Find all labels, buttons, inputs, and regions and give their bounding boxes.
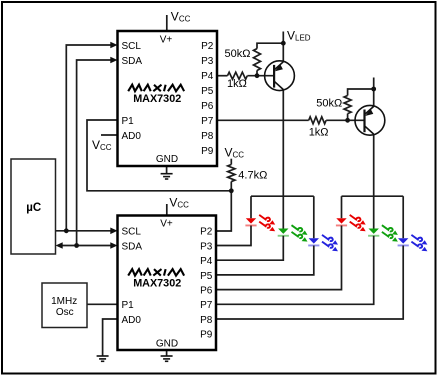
U1 pin labels [122,35,214,166]
wire Q1 collector to LED group 1 [282,90,284,229]
wire U1 P1 to pull-up node [87,120,231,191]
wire SDA to U2 and uC [62,245,112,247]
U2 pin labels [122,219,213,350]
wire SCL to U2 and uC [56,230,113,232]
wire green LED2 cathode to U2 P7 [217,236,374,304]
arrowhead SDA into uC [56,242,63,249]
junction node SDA [74,243,79,248]
svg-text:SCL: SCL [122,41,142,52]
svg-text:1kΩ: 1kΩ [227,78,247,90]
oscillator box [42,283,87,328]
wire U1 GND stub [166,166,168,174]
svg-text:SCL: SCL [122,227,142,238]
wire U1 P7 to R4 [217,119,309,121]
svg-text:P6: P6 [200,286,213,297]
svg-text:P3: P3 [200,242,213,253]
svg-text:AD0: AD0 [122,315,142,326]
arrowhead SCL into U2 [110,228,117,235]
svg-text:MAX7302: MAX7302 [133,278,181,290]
wire red LED2 cathode to U2 P6 [217,226,342,290]
ground U2 [161,356,173,361]
wire R4 to Q2 base node [326,119,364,121]
wire Q2 collector to LED group 2 [373,134,375,229]
svg-text:P2: P2 [201,41,214,52]
wire blue LED1 anode drop [313,196,315,238]
ground AD0 [97,356,109,361]
junction node Q2 emitter [371,87,376,92]
svg-text:MAX7302: MAX7302 [133,93,181,105]
transistor Q2 [355,105,385,135]
resistor R1 50k [254,49,261,71]
ground U1 [161,174,173,179]
LED D2 green [278,225,308,241]
svg-text:Osc: Osc [56,307,74,318]
svg-text:µC: µC [26,202,41,214]
svg-text:50kΩ: 50kΩ [225,48,251,60]
svg-text:SDA: SDA [122,56,143,67]
svg-text:P3: P3 [201,56,214,67]
U1 MAXIM logo [128,85,184,92]
uC box [11,159,56,254]
svg-text:V+: V+ [160,219,173,230]
svg-text:1MHz: 1MHz [51,296,77,307]
svg-text:GND: GND [156,154,178,165]
wire R5 to U2 P2 [216,182,231,232]
wire Q2 emitter stub [373,78,375,107]
svg-text:P7: P7 [201,116,214,127]
wire LED group2 anode rail [342,195,404,197]
U2 MAXIM logo [128,269,184,276]
junction node Q2 base [345,118,350,123]
svg-text:SDA: SDA [122,242,143,253]
wire red LED2 anode drop [341,196,343,218]
svg-text:P7: P7 [200,300,213,311]
wire R3 bottom to node [347,114,349,121]
svg-text:P6: P6 [201,101,214,112]
transistor Q1 [265,61,295,91]
svg-text:GND: GND [156,339,178,350]
svg-text:P2: P2 [200,227,213,238]
wire VCC to U1 V+ [166,15,168,31]
wire U1 P4 to R2 [217,75,228,77]
resistor R2 1k [228,72,248,79]
wire red LED1 anode drop [250,196,252,218]
wire R1 top to VLED node [257,43,283,48]
LED D4 red [336,215,366,231]
wire green LED1 cathode to U2 P4 [217,236,283,260]
LED D5 green [368,225,398,241]
wire VCC to R5 [230,159,232,165]
svg-text:4.7kΩ: 4.7kΩ [238,170,267,182]
wire U2 GND stub [166,350,168,356]
svg-text:P4: P4 [201,71,214,82]
svg-text:P9: P9 [201,146,214,157]
junction node P1 pull-up [229,188,234,193]
IC U1 MAX7302 [118,31,218,166]
wire SCL bus to U1 [66,45,112,231]
wire SDA bus to U1 [77,60,112,246]
wire R3 top to Q2 emitter [348,89,374,96]
wire osc to U2 P1 [87,303,118,305]
svg-text:50kΩ: 50kΩ [316,98,342,110]
svg-text:AD0: AD0 [122,131,142,142]
LED D1 red [245,215,275,231]
svg-text:P1: P1 [122,116,135,127]
svg-text:V+: V+ [160,35,173,46]
wire blue LED2 anode drop [402,196,404,238]
IC U2 MAX7302 [118,216,217,351]
arrowhead SDA into U2 [110,242,117,249]
resistor R4 1k [309,117,326,124]
svg-text:P8: P8 [201,131,214,142]
wire VCC to U2 V+ [166,204,168,216]
wire U2 AD0 to ground [103,319,118,356]
wire VLED rail [282,32,284,62]
wire blue LED1 cathode to U2 P5 [217,246,314,275]
arrowhead SDA into U1 [110,57,117,64]
LED D6 blue [398,235,428,251]
svg-text:P5: P5 [201,86,214,97]
junction node Q1 base [255,73,260,78]
junction node VLED [281,41,286,46]
svg-text:P5: P5 [200,271,213,282]
LED D3 blue [308,235,338,251]
wire R1 bottom to node [256,70,258,75]
svg-text:P4: P4 [200,256,213,267]
junction node SCL [64,228,69,233]
resistor R5 4.7k [228,165,235,182]
wire LED group1 anode rail [251,195,314,197]
wire blue LED2 cathode to U2 P8 [217,246,403,320]
wire R2 to Q1 base node [247,75,274,77]
svg-text:P8: P8 [200,315,213,326]
wire U1 AD0 to VCC [101,134,118,136]
wire red LED1 cathode to U2 P3 [217,226,251,246]
arrowhead SCL into U1 [110,42,117,49]
resistor R3 50k [344,96,351,114]
svg-text:P9: P9 [200,330,213,341]
svg-text:P1: P1 [122,300,135,311]
svg-text:1kΩ: 1kΩ [309,127,329,139]
